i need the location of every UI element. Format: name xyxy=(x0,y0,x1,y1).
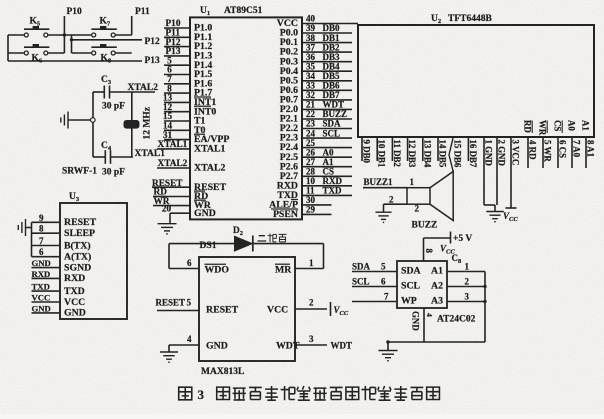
U4 pin 4 GND xyxy=(169,344,199,346)
U1 pin 14 T0 xyxy=(164,129,190,131)
U1 pin 10 RXD xyxy=(302,185,352,187)
wire crystal top branch xyxy=(93,91,104,93)
U1 pin 26 P2.5 xyxy=(302,156,352,158)
U1 pin 31 EA/VPP xyxy=(164,139,190,141)
U5 pin 3 A3 xyxy=(447,301,485,303)
pushbutton K8 xyxy=(91,44,116,55)
wire watchdog loop xyxy=(168,244,170,269)
junction xyxy=(483,285,486,288)
U4 pin 6 WDO xyxy=(169,268,199,270)
U5 pin 2 A2 xyxy=(447,286,485,288)
wire P13 row xyxy=(8,60,142,62)
wire A1-A3 tie xyxy=(484,272,486,343)
buzzer horn xyxy=(430,172,453,221)
U1 pin 32 P0.7 xyxy=(302,99,352,101)
U2 pin 3 VCC xyxy=(510,137,512,208)
pushbutton K5 xyxy=(24,26,49,37)
U5 pin 1 A1 xyxy=(447,271,485,273)
U3 pin 8 SLEEP xyxy=(32,232,61,234)
U2 pin 13 DB4 xyxy=(422,137,424,161)
U1 pin 28 P2.7 xyxy=(302,175,352,177)
Vcc terminal xyxy=(330,302,332,316)
U1 pin 13 INT1 xyxy=(164,101,190,103)
ground xyxy=(160,352,178,362)
pushbutton K7 xyxy=(91,26,116,37)
U4 pin 3 WDT xyxy=(295,344,327,346)
ground xyxy=(486,212,503,222)
ground xyxy=(379,351,398,361)
label diode (hanzi) xyxy=(257,234,286,243)
wire P12 row xyxy=(72,39,143,41)
U2 pin 6 CS xyxy=(557,137,559,168)
wire left rail xyxy=(7,35,9,61)
buzzer BUZZ body xyxy=(407,188,430,205)
op-amp U3 xyxy=(60,203,127,319)
wire P11 column xyxy=(131,16,133,35)
U3 pin VCC VCC xyxy=(32,301,61,303)
U1 pin P10 P1.0 xyxy=(164,27,190,29)
U1 pin 36 P0.3 xyxy=(302,61,352,63)
wire P12 jog xyxy=(71,35,73,53)
U5 pin 7 WP xyxy=(352,301,397,303)
U1 pin RD RD xyxy=(153,196,190,198)
wire to ground xyxy=(168,345,170,352)
op-amp U4 MAX813L body xyxy=(199,257,295,361)
op-amp U2 TFT6448B body xyxy=(358,25,594,137)
+5V terminal xyxy=(450,232,452,244)
U2 pin 15 DB6 xyxy=(449,137,453,172)
U1 pin 37 P0.2 xyxy=(302,51,352,53)
U1 pin WR WR xyxy=(153,205,190,207)
U2 pin 5 WR xyxy=(542,137,544,168)
U4 pin 2 VCC xyxy=(295,308,327,310)
wire buzzer pin2 xyxy=(384,203,408,205)
U1 pin P11 P1.1 xyxy=(164,36,190,38)
ground xyxy=(158,224,177,234)
U1 pin 30 ALE/P xyxy=(302,204,332,206)
op-amp U1 AT89C51 body xyxy=(190,17,302,219)
U2 pin 14 DB5 xyxy=(437,137,439,161)
U1 pin 35 P0.4 xyxy=(302,70,352,72)
ground xyxy=(375,212,391,222)
U1 pin 29 PSEN xyxy=(302,213,332,215)
U2 pin 4 RD xyxy=(527,137,529,168)
U1 pin 8 P1.7 xyxy=(164,92,190,94)
U1 pin XTAL1 XTAL1 xyxy=(157,148,190,150)
U1 pin 22 P2.1 xyxy=(302,118,352,120)
wire U3 pins 9-6 tie xyxy=(31,222,33,256)
U1 pin 34 P0.5 xyxy=(302,80,352,82)
U3 pin 7 B(TX) xyxy=(32,245,61,247)
U1 pin XTAL2 XTAL2 xyxy=(157,167,190,169)
U4 pin 1 MR xyxy=(295,268,324,270)
U3 pin GND SGND xyxy=(32,267,61,269)
U1 pin 21 P2.0 xyxy=(302,108,352,110)
U2 pin 16 DB7 xyxy=(467,137,469,161)
U1 pin 40 VCC xyxy=(302,23,358,25)
U1 pin 39 P0.0 xyxy=(302,32,352,34)
junction xyxy=(386,340,390,344)
U1 pin 25 P2.4 xyxy=(302,147,352,149)
crystal Y1 12MHz xyxy=(124,121,139,129)
wire to ground xyxy=(383,204,385,212)
pushbutton K6 xyxy=(24,44,49,55)
U1 pin 33 P0.6 xyxy=(302,89,352,91)
U2 pin 8 A1 xyxy=(585,137,587,168)
U5 pin 5 SDA xyxy=(352,271,397,273)
wire U1 GND to ground xyxy=(169,213,171,223)
wire button row 2 xyxy=(8,52,24,54)
U2 pin 12 DB3 xyxy=(407,137,409,161)
U1 pin 5 P1.4 xyxy=(164,64,190,66)
U2 pin 2 GND xyxy=(496,137,498,205)
U1 pin 38 P0.1 xyxy=(302,42,352,44)
wire P10 column xyxy=(63,16,65,53)
U1 pin 27 P2.6 xyxy=(302,166,352,168)
U3 pin 6 A(TX) xyxy=(32,256,61,258)
U5 pin 6 SCL xyxy=(352,286,397,288)
wire +5V supply xyxy=(423,238,425,261)
capacitor C4 xyxy=(104,150,106,164)
U1 pin 12 INT0 xyxy=(164,111,190,113)
U3 pin RXD RXD xyxy=(32,277,61,279)
ground xyxy=(61,112,68,129)
junction xyxy=(63,33,66,36)
ground xyxy=(18,219,25,236)
U2 pin 1 GND xyxy=(483,137,485,205)
U1 pin 7 P1.6 xyxy=(164,83,190,85)
wire buzzer pin1 xyxy=(363,187,407,189)
U1 pin 15 T1 xyxy=(164,120,190,122)
wire to ground xyxy=(68,119,91,121)
U1 pin 20 GND xyxy=(170,212,190,214)
diode D2 xyxy=(235,236,253,251)
op-amp U5 AT24C02 body xyxy=(397,261,447,308)
wire crystal bottom branch xyxy=(93,156,105,158)
junction xyxy=(70,38,73,41)
wire to ground xyxy=(26,227,32,229)
wire bottom rail xyxy=(388,341,485,343)
wire to ground xyxy=(387,342,389,350)
U1 pin P13 P1.3 xyxy=(164,55,190,57)
U1 pin 11 TXD xyxy=(302,194,352,196)
U3 pin GND GND xyxy=(32,312,61,314)
U1 pin RESET RESET xyxy=(152,186,190,188)
U1 pin 24 P2.3 xyxy=(302,137,352,139)
U5 pin 4 GND xyxy=(423,308,425,342)
wire crystal left rail xyxy=(92,92,94,157)
capacitor C3 xyxy=(103,86,105,99)
U2 pin 9 DB0 xyxy=(361,137,363,161)
caption: figure 3 hardware schematic (hanzi approximated) xyxy=(179,387,192,400)
junction node xyxy=(91,118,96,123)
U1 pin 6 P1.5 xyxy=(164,74,190,76)
overline WR inside xyxy=(194,199,206,201)
U1 pin 23 P2.2 xyxy=(302,128,352,130)
wire crystal vertical xyxy=(131,92,133,121)
wire gnd join xyxy=(484,204,495,206)
U1 pin P12 P1.2 xyxy=(164,46,190,48)
Vcc terminal xyxy=(506,207,517,209)
U3 pin TXD TXD xyxy=(32,290,61,292)
U2 pin 10 DB1 xyxy=(376,137,378,161)
wire button row 1 xyxy=(8,34,24,36)
U2 pin 7 A0 xyxy=(571,137,573,168)
U2 pin 11 DB2 xyxy=(391,137,393,161)
junction xyxy=(483,300,486,303)
U3 pin 9 RESET xyxy=(32,221,61,223)
